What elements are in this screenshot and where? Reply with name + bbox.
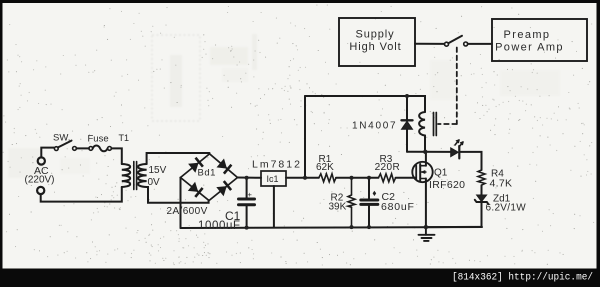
terminal AC live: [38, 157, 45, 164]
relay coil RY1: [419, 112, 436, 152]
resistor R3: [378, 174, 395, 182]
MOSFET Q1: [412, 152, 432, 227]
svg-text:6.2V/1W: 6.2V/1W: [486, 203, 527, 214]
capacitor C2: [361, 178, 378, 227]
resistor R2: [348, 178, 355, 227]
resistor R4: [478, 170, 485, 185]
wire IC1 output rail: [286, 177, 319, 179]
svg-text:Q1: Q1: [434, 168, 448, 179]
wire IC1 ground pin: [273, 186, 275, 227]
label Preamp Power Amp: [495, 29, 564, 53]
svg-text:0V: 0V: [148, 177, 161, 188]
svg-text:4.7K: 4.7K: [490, 178, 513, 190]
svg-text:Lm7812: Lm7812: [252, 159, 302, 171]
bridge diode 3 (lower-left): [188, 182, 203, 197]
wire LED to R4 branch: [460, 152, 481, 170]
relay contacts: [445, 36, 468, 46]
junction dots: [245, 94, 428, 230]
dashed relay control link: [438, 48, 457, 125]
wire R3 to Q1 gate: [396, 177, 416, 179]
svg-text:+: +: [248, 190, 253, 199]
terminal AC neutral: [37, 187, 44, 194]
svg-text:(220V): (220V): [25, 175, 55, 186]
wire bridge plus output: [238, 177, 262, 179]
transformer T1 core: [134, 162, 137, 190]
wire coil junction to LED: [407, 151, 451, 153]
wire AC neutral bottom: [41, 187, 122, 202]
svg-text:Bd1: Bd1: [198, 168, 216, 179]
zener Zd1: [475, 195, 489, 227]
switch SW: [54, 141, 76, 151]
svg-text:[814x362] http://upic.me/: [814x362] http://upic.me/: [452, 272, 593, 284]
fuse F1: [89, 146, 112, 152]
svg-text:1000uF: 1000uF: [198, 220, 241, 232]
wire R4 to zener: [481, 185, 483, 195]
transformer T1 secondary winding: [138, 164, 147, 187]
wire regulator node up to top rail: [304, 96, 306, 178]
label Supply High Volt: [349, 28, 401, 53]
wire fuse to transformer primary: [111, 148, 121, 164]
wire secondary 0V to bridge bottom: [147, 187, 209, 203]
svg-text:680uF: 680uF: [381, 201, 415, 213]
bridge Bd1 diamond: [181, 154, 238, 201]
wire AC live top: [41, 148, 54, 158]
wire bridge minus down to ground rail: [180, 178, 182, 229]
wire zener branch bottom to ground rail: [426, 226, 482, 228]
resistor R1: [319, 174, 336, 182]
svg-text:Ic1: Ic1: [267, 174, 279, 184]
svg-text:IRF620: IRF620: [429, 179, 465, 191]
transformer T1 primary winding: [122, 164, 130, 187]
svg-text:Supply: Supply: [355, 28, 394, 40]
ground rail bottom: [181, 227, 483, 228]
ground symbol: [419, 227, 435, 241]
wire supply box to relay contact: [415, 43, 444, 45]
svg-text:High Volt: High Volt: [349, 41, 401, 53]
wire rail R1 to R3: [336, 177, 378, 179]
svg-text:Power Amp: Power Amp: [495, 41, 564, 53]
box Supply High Volt: [339, 18, 415, 66]
svg-text:SW.: SW.: [53, 133, 70, 144]
bridge diode 4 (lower-right): [216, 181, 231, 196]
svg-text:1N4007: 1N4007: [352, 120, 397, 131]
bridge diode 1 (upper-left): [188, 158, 203, 173]
bridge diode 2 (upper-right): [217, 159, 232, 174]
wire secondary 15V to bridge top: [147, 153, 210, 164]
box Preamp Power Amp: [492, 19, 587, 61]
wire relay contact to preamp box: [468, 43, 492, 45]
svg-text:2A/600V: 2A/600V: [167, 206, 208, 217]
svg-text:15V: 15V: [149, 165, 167, 176]
wire switch to fuse: [76, 147, 89, 149]
svg-text:62K: 62K: [316, 162, 334, 173]
svg-text:Fuse: Fuse: [88, 134, 109, 145]
svg-text:Preamp: Preamp: [504, 29, 551, 41]
LED D2: [451, 140, 463, 158]
diode D1 1N4007: [402, 96, 413, 152]
svg-text:220R: 220R: [375, 162, 401, 173]
svg-text:39K: 39K: [329, 201, 347, 212]
regulator IC1 box: [261, 171, 286, 186]
wire top rail: [305, 96, 425, 112]
svg-text:T1: T1: [119, 133, 130, 143]
capacitor C1: [239, 178, 255, 228]
